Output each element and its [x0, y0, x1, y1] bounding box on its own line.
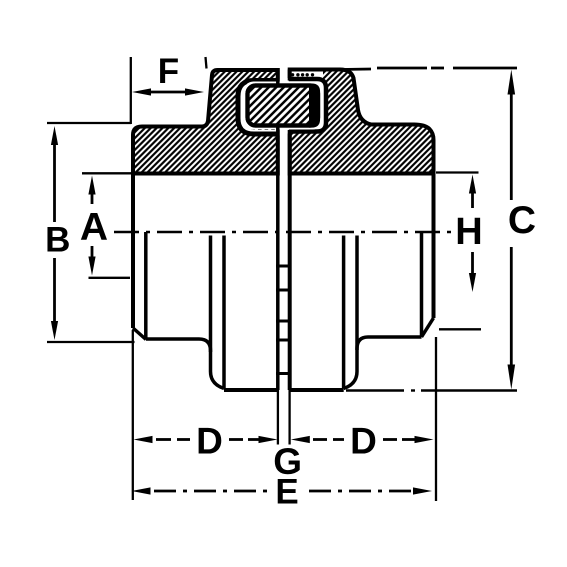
H dimension	[471, 194, 474, 209]
left hub outer edge below flange	[131, 174, 135, 329]
C bottom extension (dash-dot)	[346, 389, 517, 391]
A top extension	[82, 172, 131, 174]
right slot inner edge	[355, 236, 359, 351]
left hub chamfer	[133, 328, 146, 340]
left hub bore line	[144, 232, 148, 339]
svg-text:B: B	[45, 221, 70, 260]
H bottom extension	[439, 328, 481, 330]
F dimension	[151, 91, 186, 94]
svg-text:E: E	[275, 473, 298, 512]
svg-text:D: D	[350, 421, 377, 462]
stipple dots row	[291, 73, 314, 76]
left full vertical extension line	[130, 57, 132, 124]
pin dark end	[309, 84, 320, 128]
rubber bush inner dashed line	[250, 91, 276, 124]
right hub bore line	[420, 232, 424, 337]
svg-text:C: C	[508, 199, 536, 242]
gap extension lines	[277, 390, 279, 445]
A dimension	[91, 195, 94, 205]
right pin-hole white backing	[287, 78, 328, 134]
left slot edge	[222, 236, 226, 389]
right pin-hole thick outline	[289, 79, 326, 132]
F right extension tick	[206, 57, 207, 69]
right lower vertical extension	[435, 337, 437, 501]
left hub bottom edge	[224, 388, 278, 392]
svg-text:D: D	[196, 421, 223, 462]
B bottom extension	[47, 341, 135, 343]
thin extension lines	[47, 57, 481, 501]
B dimension	[53, 145, 56, 222]
left hub step profile	[146, 339, 224, 389]
left slot inner edge	[209, 236, 213, 353]
right hub step profile	[344, 337, 422, 389]
right hub chamfer	[422, 318, 434, 337]
horizontal centerline (dash-dot)	[114, 231, 452, 233]
right slot edge	[342, 236, 346, 389]
B top extension	[47, 122, 131, 124]
D dimension left	[156, 438, 259, 441]
A bottom extension	[89, 277, 131, 279]
left pin-hole thick outline	[238, 81, 278, 135]
gap segment ticks	[276, 266, 292, 374]
right hub outer edge below flange	[432, 174, 436, 319]
pin (hatched, thick outline)	[248, 86, 319, 126]
D dimension right	[313, 438, 415, 441]
E dimension	[154, 490, 411, 493]
C top extension (dashed)	[340, 68, 517, 70]
right flange face line (gap side)	[288, 70, 292, 81]
svg-text:A: A	[80, 206, 108, 249]
right hub bottom edge	[290, 388, 344, 392]
right flange hatched section (boss + ring band)	[290, 70, 434, 174]
svg-text:F: F	[158, 52, 179, 91]
left pin-hole white backing	[236, 80, 280, 136]
svg-text:H: H	[455, 211, 482, 253]
C dimension	[510, 95, 513, 201]
pin white backing	[244, 82, 323, 130]
H top extension	[436, 171, 479, 173]
left flange face line (gap side)	[276, 70, 280, 84]
left flange hatched section (boss + ring band)	[133, 70, 278, 174]
rubber bush dashed outline	[245, 86, 278, 129]
stipple strip white backing in right boss	[290, 72, 323, 81]
